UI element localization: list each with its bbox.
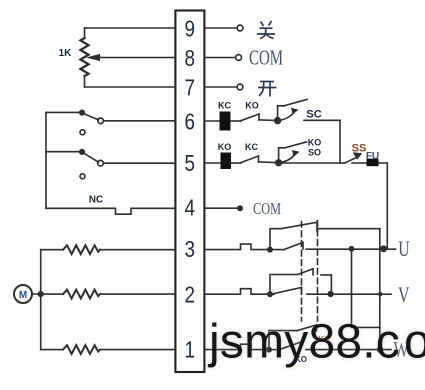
- svg-text:KC: KC: [218, 101, 231, 111]
- svg-text:SC: SC: [306, 109, 321, 121]
- svg-text:5: 5: [184, 151, 194, 176]
- svg-text:3: 3: [184, 237, 194, 262]
- svg-text:KO: KO: [308, 138, 322, 148]
- svg-text:COM: COM: [249, 46, 283, 70]
- svg-text:U: U: [398, 236, 410, 261]
- svg-text:KC: KC: [245, 142, 258, 152]
- svg-text:M: M: [19, 290, 27, 301]
- svg-text:4: 4: [184, 196, 195, 221]
- svg-text:2: 2: [184, 283, 194, 308]
- svg-text:NC: NC: [89, 195, 103, 206]
- svg-text:SO: SO: [308, 148, 321, 158]
- svg-text:8: 8: [184, 46, 194, 71]
- svg-text:SS: SS: [352, 143, 367, 155]
- svg-text:KO: KO: [218, 142, 232, 152]
- svg-text:FU: FU: [366, 151, 379, 162]
- svg-text:7: 7: [184, 76, 194, 101]
- svg-text:1: 1: [184, 338, 194, 363]
- svg-text:6: 6: [184, 110, 194, 135]
- svg-text:jsmy88.com: jsmy88.com: [207, 316, 425, 369]
- svg-text:9: 9: [184, 17, 194, 42]
- svg-text:1K: 1K: [59, 48, 73, 59]
- svg-text:KO: KO: [245, 101, 259, 111]
- svg-text:COM: COM: [253, 199, 281, 218]
- svg-text:V: V: [398, 282, 410, 307]
